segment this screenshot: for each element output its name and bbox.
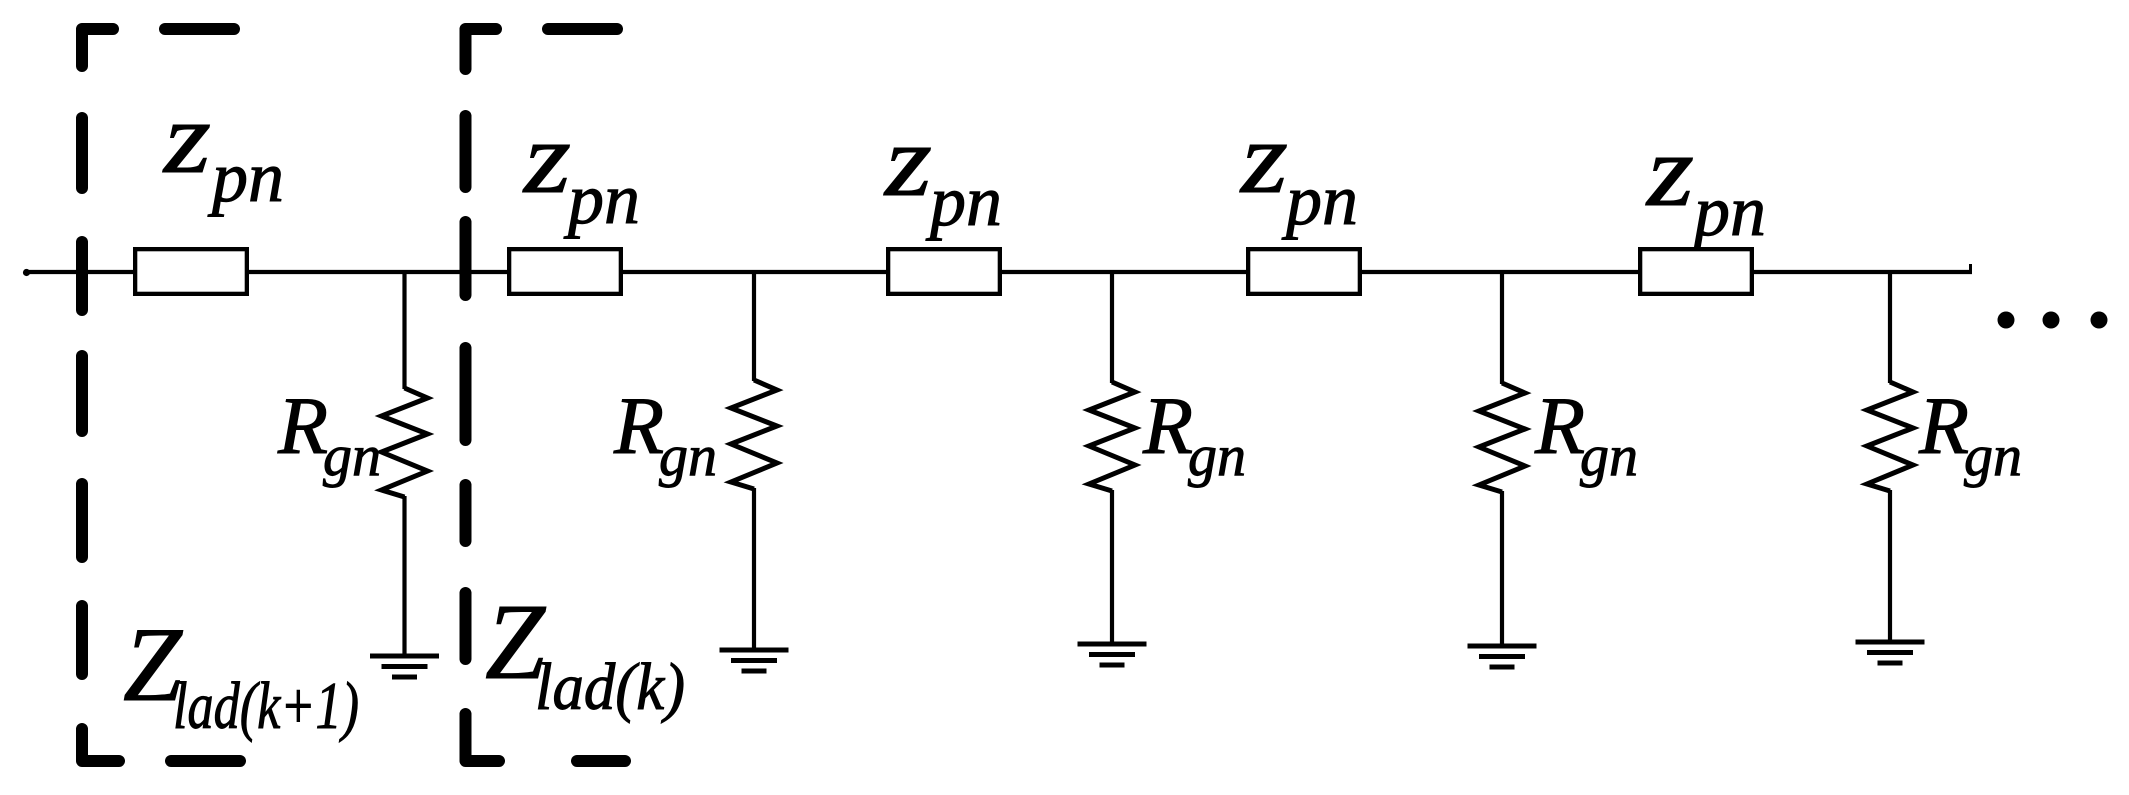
- svg-text:pn: pn: [1689, 171, 1766, 251]
- svg-text:z: z: [162, 81, 211, 195]
- svg-text:pn: pn: [1281, 160, 1358, 240]
- svg-text:R: R: [1534, 380, 1585, 471]
- svg-text:R: R: [277, 380, 328, 471]
- svg-text:z: z: [1239, 101, 1288, 215]
- svg-text:gn: gn: [1580, 423, 1638, 488]
- svg-text:R: R: [1918, 380, 1969, 471]
- svg-text:lad(k): lad(k): [535, 650, 685, 724]
- svg-text:z: z: [1645, 114, 1694, 228]
- svg-text:pn: pn: [925, 161, 1002, 241]
- svg-text:z: z: [883, 104, 932, 218]
- svg-text:gn: gn: [1188, 423, 1246, 488]
- svg-text:z: z: [522, 101, 571, 215]
- svg-text:gn: gn: [323, 423, 381, 488]
- svg-text:R: R: [1142, 380, 1193, 471]
- svg-text:gn: gn: [659, 423, 717, 488]
- svg-text:lad(k+1): lad(k+1): [173, 669, 359, 743]
- svg-text:gn: gn: [1964, 423, 2022, 488]
- svg-text:pn: pn: [207, 137, 284, 217]
- svg-text:R: R: [613, 380, 664, 471]
- svg-text:pn: pn: [563, 159, 640, 239]
